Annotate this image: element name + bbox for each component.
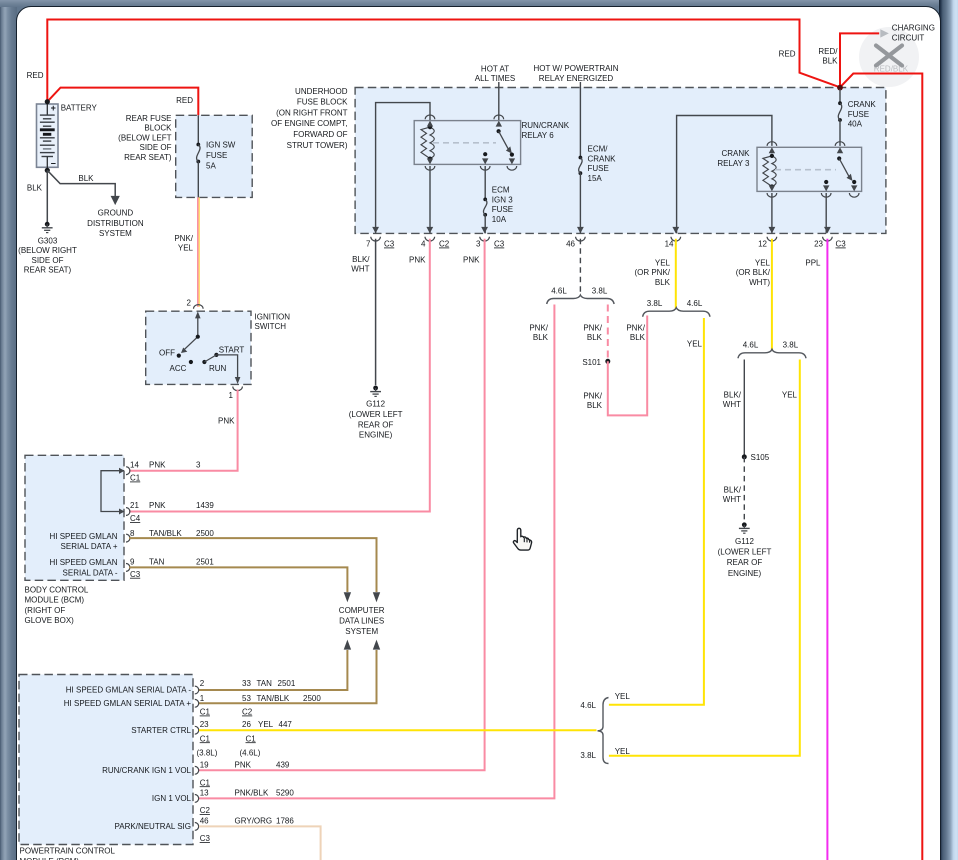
relay3 link dashed [775,169,836,171]
svg-text:PARK/NEUTRAL SIG: PARK/NEUTRAL SIG [115,822,191,831]
svg-text:9: 9 [130,557,135,566]
relay3 coil [763,156,772,187]
svg-text:HOT AT: HOT AT [481,65,509,74]
brace 4.6L/3.8L under pin46 [547,295,614,304]
svg-text:1439: 1439 [196,501,214,510]
svg-text:IGN SW: IGN SW [206,141,236,150]
svg-text:PNK/: PNK/ [529,324,548,333]
svg-text:BODY CONTROL: BODY CONTROL [25,585,89,594]
svg-text:C3: C3 [494,240,505,249]
svg-text:S101: S101 [582,358,601,367]
battery B1 [37,104,59,167]
wire BLK/WHT dashed S105 to G112 [743,457,745,523]
svg-text:3: 3 [196,461,201,470]
svg-text:PPL: PPL [805,259,821,268]
svg-text:(OR BLK/: (OR BLK/ [736,268,771,277]
wire PNK/BLK dashed 3.8L to S101 [607,305,609,362]
svg-text:ENGINE): ENGINE) [728,569,762,578]
svg-text:4.6L: 4.6L [743,341,759,350]
svg-text:BLK: BLK [78,174,94,183]
svg-text:RED/: RED/ [818,47,838,56]
svg-text:REAR FUSE: REAR FUSE [126,114,172,123]
pin exit at x=484.6 [481,227,488,234]
fuse IGN SW FUSE 5A [196,143,200,147]
svg-text:C3: C3 [384,240,395,249]
svg-text:+: + [51,103,56,113]
wire crank fuse top [839,89,841,103]
svg-text:BLK: BLK [822,57,838,66]
wire RED/BLK to charging circuit [840,33,879,87]
ground G112 left [373,386,378,391]
svg-text:HI SPEED GMLAN: HI SPEED GMLAN [49,532,117,541]
svg-text:SERIAL DATA -: SERIAL DATA - [63,569,118,578]
svg-text:C2: C2 [439,240,450,249]
svg-text:PNK: PNK [149,461,166,470]
svg-text:2500: 2500 [196,529,214,538]
svg-text:HI SPEED GMLAN SERIAL DATA +: HI SPEED GMLAN SERIAL DATA + [64,699,192,708]
ground G303 [45,222,50,227]
svg-text:WHT): WHT) [749,278,770,287]
svg-text:S105: S105 [751,453,770,462]
svg-text:RUN/CRANK: RUN/CRANK [522,121,570,130]
svg-text:5290: 5290 [276,788,294,797]
svg-text:MODULE (BCM): MODULE (BCM) [25,596,85,605]
svg-text:CHARGING: CHARGING [892,24,935,33]
wire PNK pin4 to BCM pin21 [129,239,430,512]
wire RED battery to top right [47,20,840,102]
svg-text:19: 19 [200,760,209,769]
svg-text:SWITCH: SWITCH [255,322,287,331]
svg-text:FUSE: FUSE [492,205,513,214]
svg-text:C2: C2 [242,708,253,717]
svg-text:WHT: WHT [723,495,741,504]
svg-text:POWERTRAIN CONTROL: POWERTRAIN CONTROL [20,847,116,856]
wire PNK pin3 to PCM pin19 [199,239,485,771]
svg-text:GLOVE BOX): GLOVE BOX) [25,616,75,625]
svg-text:YEL: YEL [615,692,631,701]
ignition switch box [146,311,251,384]
brace left starter ctrl [598,698,609,764]
wire ecm crank fuse feed [579,82,581,158]
svg-text:(RIGHT OF: (RIGHT OF [25,606,66,615]
svg-text:10A: 10A [492,215,507,224]
wire YEL 4.6L down [609,318,704,705]
wire below ign sw fuse [197,162,199,198]
svg-text:13: 13 [200,788,209,797]
wire TAN/BLK PCM pin1 to data lines [199,650,377,703]
svg-text:SIDE OF: SIDE OF [31,256,63,265]
svg-text:2: 2 [200,679,205,688]
svg-text:BLK: BLK [655,278,671,287]
svg-text:3.8L: 3.8L [592,287,608,296]
svg-text:BLK/: BLK/ [724,486,742,495]
svg-text:RED: RED [176,96,193,105]
svg-text:−: − [51,158,56,168]
svg-text:OFF: OFF [159,349,175,358]
svg-text:CRANK: CRANK [721,149,750,158]
svg-text:4.6L: 4.6L [687,299,703,308]
svg-text:G303: G303 [38,237,58,246]
wire BLK/WHT 4.6L to S105 [743,360,745,457]
ignition switch contacts [177,354,181,358]
svg-text:BLK: BLK [533,333,549,342]
svg-text:RELAY 6: RELAY 6 [522,131,555,140]
svg-text:YEL: YEL [178,244,194,253]
relay3 switch [837,156,841,160]
svg-text:21: 21 [130,501,139,510]
svg-text:RELAY 3: RELAY 3 [717,159,750,168]
wire PNK/BLK 4.6L to PCM pin13 [199,305,554,799]
svg-text:(LOWER LEFT: (LOWER LEFT [349,410,403,419]
wire ecm ign3 fuse to pin 3 [484,215,486,234]
wire relay3 coil to pin 14 [677,116,772,234]
svg-text:IGNITION: IGNITION [255,313,291,322]
svg-text:UNDERHOOD: UNDERHOOD [295,87,348,96]
svg-text:(BELOW LEFT: (BELOW LEFT [118,133,171,142]
wire BLK/WHT pin7 to G112 [375,239,377,385]
svg-text:1: 1 [200,694,205,703]
svg-text:HI SPEED GMLAN SERIAL DATA -: HI SPEED GMLAN SERIAL DATA - [66,685,192,694]
svg-text:23: 23 [200,720,209,729]
wire START to pin 1 [216,355,237,378]
svg-text:GRY/ORG: GRY/ORG [235,816,273,825]
wire TAN PCM pin2 to data lines [199,650,347,690]
wire GRY/ORG park neutral [199,826,321,860]
svg-text:3: 3 [476,240,481,249]
svg-text:2501: 2501 [278,679,296,688]
svg-text:HI SPEED GMLAN: HI SPEED GMLAN [49,558,117,567]
body control module box [25,455,124,580]
svg-text:23: 23 [814,240,823,249]
svg-text:12: 12 [758,240,767,249]
svg-text:(ON RIGHT FRONT: (ON RIGHT FRONT [276,108,348,117]
wire BLK battery to G303 [46,170,48,222]
relay3 terminal arrows [769,147,775,153]
relay6 switch [497,129,501,133]
svg-text:FORWARD OF: FORWARD OF [293,130,347,139]
svg-text:26: 26 [242,720,251,729]
svg-text:RED: RED [27,71,44,80]
svg-text:C3: C3 [130,570,141,579]
svg-text:(3.8L): (3.8L) [197,749,218,758]
svg-text:ALL TIMES: ALL TIMES [475,74,515,83]
svg-text:ECM/: ECM/ [588,145,609,154]
powertrain control module box [19,675,193,845]
svg-text:FUSE BLOCK: FUSE BLOCK [297,98,348,107]
arrow ground distribution [111,196,120,205]
wire PNK ignition pin1 to BCM [129,390,238,471]
svg-text:TAN/BLK: TAN/BLK [257,694,290,703]
svg-text:CRANK: CRANK [588,154,617,163]
svg-text:C1: C1 [200,708,211,717]
relay6 coil [421,127,430,159]
svg-text:(BELOW RIGHT: (BELOW RIGHT [18,246,77,255]
wire YEL pin14 to brace2 [675,239,677,309]
wire relay3 to pin 12 [771,193,773,233]
svg-text:PNK/: PNK/ [174,234,193,243]
svg-text:C3: C3 [200,834,211,843]
svg-text:REAR SEAT): REAR SEAT) [124,153,172,162]
brace 4.6L/3.8L under pin12 [738,349,806,358]
svg-text:2500: 2500 [303,694,321,703]
svg-text:FUSE: FUSE [206,151,227,160]
node S105 [742,454,747,459]
svg-text:4.6L: 4.6L [551,287,567,296]
rear fuse block box [176,115,253,197]
svg-text:IGN 3: IGN 3 [492,195,513,204]
svg-text:40A: 40A [848,120,863,129]
wire YEL pin12 to brace3 [771,239,773,350]
svg-text:PNK/: PNK/ [626,324,645,333]
svg-text:DATA LINES: DATA LINES [339,617,384,626]
pin exit at x=580.4 [577,227,584,234]
svg-text:RED: RED [779,50,796,59]
BCM internal jumper pin14 to pin21 [101,471,124,512]
svg-text:SYSTEM: SYSTEM [345,627,378,636]
svg-text:YEL: YEL [615,747,631,756]
svg-text:IGN 1 VOL: IGN 1 VOL [152,794,192,803]
svg-text:DISTRIBUTION: DISTRIBUTION [87,219,144,228]
svg-text:3.8L: 3.8L [580,751,596,760]
svg-text:COMPUTER: COMPUTER [339,606,385,615]
wire relay6 coil to pin 7 [376,103,430,234]
svg-text:SERIAL DATA +: SERIAL DATA + [61,542,118,551]
svg-text:3.8L: 3.8L [783,341,799,350]
svg-text:BLK: BLK [630,333,646,342]
svg-text:BLK: BLK [587,333,603,342]
svg-text:TAN: TAN [149,557,165,566]
wire YEL starter ctrl [199,729,597,731]
svg-text:C3: C3 [836,240,847,249]
svg-text:46: 46 [566,240,575,249]
pin 2 ignition switch [194,305,204,309]
svg-text:2501: 2501 [196,557,214,566]
close button [859,27,919,87]
svg-text:4.6L: 4.6L [580,701,596,710]
wire RED/BLK right side down [840,74,922,860]
wire relay6 pin 4 [429,166,431,233]
svg-text:RUN: RUN [209,364,227,373]
svg-text:7: 7 [366,240,371,249]
svg-text:START: START [219,346,245,355]
svg-text:33: 33 [242,679,251,688]
svg-text:14: 14 [130,461,139,470]
svg-text:3.8L: 3.8L [647,299,663,308]
svg-text:TAN/BLK: TAN/BLK [149,529,182,538]
PCM pin connectors [195,686,199,694]
svg-text:1: 1 [229,391,234,400]
svg-text:C1: C1 [200,778,211,787]
BCM pin connectors [126,467,130,475]
svg-text:BLK/: BLK/ [724,391,742,400]
svg-text:BATTERY: BATTERY [61,104,98,113]
svg-text:FUSE: FUSE [588,164,609,173]
svg-text:BLOCK: BLOCK [144,124,172,133]
mouse cursor [513,528,531,550]
pin exit at x=827.4 [824,227,831,234]
ignition switch arm up [197,314,199,337]
pin exit at x=375.6 [372,227,379,234]
svg-text:STARTER CTRL: STARTER CTRL [131,726,191,735]
svg-text:2: 2 [187,299,192,308]
brace 3.8L/4.6L under pin14 [643,308,710,317]
svg-text:PNK: PNK [409,256,426,265]
svg-text:SYSTEM: SYSTEM [99,229,132,238]
svg-text:CRANK: CRANK [848,100,877,109]
wire YEL 3.8L down [609,360,800,756]
fuse ECM IGN 3 FUSE 10A [483,198,487,202]
wire TAN/BLK BCM pin8 to data lines [129,538,377,592]
svg-text:447: 447 [279,720,293,729]
svg-text:WHT: WHT [723,400,741,409]
svg-text:53: 53 [242,694,251,703]
svg-text:C4: C4 [130,514,141,523]
svg-text:(LOWER LEFT: (LOWER LEFT [718,548,772,557]
svg-text:(4.6L): (4.6L) [240,749,261,758]
svg-text:15A: 15A [588,174,603,183]
svg-text:OF ENGINE COMPT,: OF ENGINE COMPT, [271,119,347,128]
pin 1 ignition switch [233,387,243,391]
pin exit at x=771.9 [769,227,776,234]
svg-text:439: 439 [276,760,290,769]
svg-text:YEL: YEL [655,259,671,268]
svg-text:RUN/CRANK IGN 1 VOL: RUN/CRANK IGN 1 VOL [102,766,191,775]
svg-text:HOT W/ POWERTRAIN: HOT W/ POWERTRAIN [533,64,618,73]
svg-text:SIDE OF: SIDE OF [139,143,171,152]
svg-text:WHT: WHT [351,265,369,274]
fuse ECM/CRANK FUSE 15A [579,156,583,160]
svg-text:BLK: BLK [27,183,43,192]
svg-text:PNK/: PNK/ [583,324,602,333]
svg-text:YEL: YEL [687,340,703,349]
svg-text:PNK: PNK [149,501,166,510]
relay U3 CRANK RELAY 3 [757,147,862,191]
wire ecm crank fuse to pin 46 [579,173,581,233]
svg-text:G112: G112 [366,400,386,409]
svg-text:C1: C1 [130,474,141,483]
arrow to charging circuit [880,29,889,37]
svg-text:ENGINE): ENGINE) [359,431,393,440]
relay6 terminal arrows [427,121,433,127]
wire PNK/YEL to ignition switch [197,197,199,306]
svg-text:(OR PNK/: (OR PNK/ [634,268,670,277]
svg-text:YEL: YEL [782,391,798,400]
svg-text:8: 8 [130,529,135,538]
svg-text:PNK: PNK [218,417,235,426]
svg-text:BLK/: BLK/ [352,255,370,264]
node junction red [837,85,843,91]
svg-text:PNK: PNK [463,256,480,265]
wire RED battery to rear fuse block [47,88,198,116]
svg-text:RELAY ENERGIZED: RELAY ENERGIZED [539,74,614,83]
svg-text:14: 14 [665,240,674,249]
wire ign sw fuse feed [197,115,199,144]
wire TAN BCM pin9 to data lines [129,567,347,592]
svg-text:46: 46 [200,816,209,825]
wire relay6 to ecm ign3 fuse [484,166,486,199]
wire crank fuse to relay3 [839,120,841,146]
fuse CRANK FUSE 40A [838,101,842,105]
svg-text:TAN: TAN [257,679,273,688]
svg-text:YEL: YEL [755,259,771,268]
relay6 connectors [425,115,435,119]
svg-text:REAR SEAT): REAR SEAT) [24,265,72,274]
svg-text:5A: 5A [206,162,216,171]
svg-text:REAR OF: REAR OF [727,558,763,567]
svg-text:PNK/BLK: PNK/BLK [235,788,269,797]
pin exit at x=429.8 [426,227,433,234]
svg-text:STRUT TOWER): STRUT TOWER) [287,141,348,150]
svg-text:G112: G112 [735,537,755,546]
ground G112 right [742,522,747,527]
relay3 connectors [767,142,777,146]
svg-text:BLK: BLK [587,401,603,410]
svg-text:YEL: YEL [258,720,274,729]
relay U6 RUN/CRANK RELAY 6 [414,121,520,165]
pin exit at x=675.8 [672,227,679,234]
wire PNK/BLK S101 to brace2 [608,316,647,416]
svg-text:GROUND: GROUND [98,208,134,217]
svg-text:PNK/: PNK/ [583,392,602,401]
wire relay6 common feed [498,82,500,121]
wire PPL pin23 down [826,239,828,860]
wire BLK to ground distribution [47,170,115,196]
svg-text:FUSE: FUSE [848,110,869,119]
svg-text:ECM: ECM [492,186,510,195]
ignition switch arm to OFF [183,337,198,352]
node S101 [605,359,610,364]
svg-text:C2: C2 [200,806,211,815]
svg-text:PNK: PNK [235,760,252,769]
svg-text:REAR OF: REAR OF [358,420,394,429]
underhood fuse block box [355,88,886,234]
svg-text:C1: C1 [246,734,257,743]
svg-text:4: 4 [421,240,426,249]
wire dashed pin46 to brace [579,239,581,296]
svg-text:CIRCUIT: CIRCUIT [892,33,925,42]
wire relay3 to pin 23 [825,193,827,233]
svg-text:ACC: ACC [170,364,187,373]
svg-text:1786: 1786 [276,816,294,825]
svg-text:C1: C1 [200,734,211,743]
relay6 link dashed [433,142,496,144]
